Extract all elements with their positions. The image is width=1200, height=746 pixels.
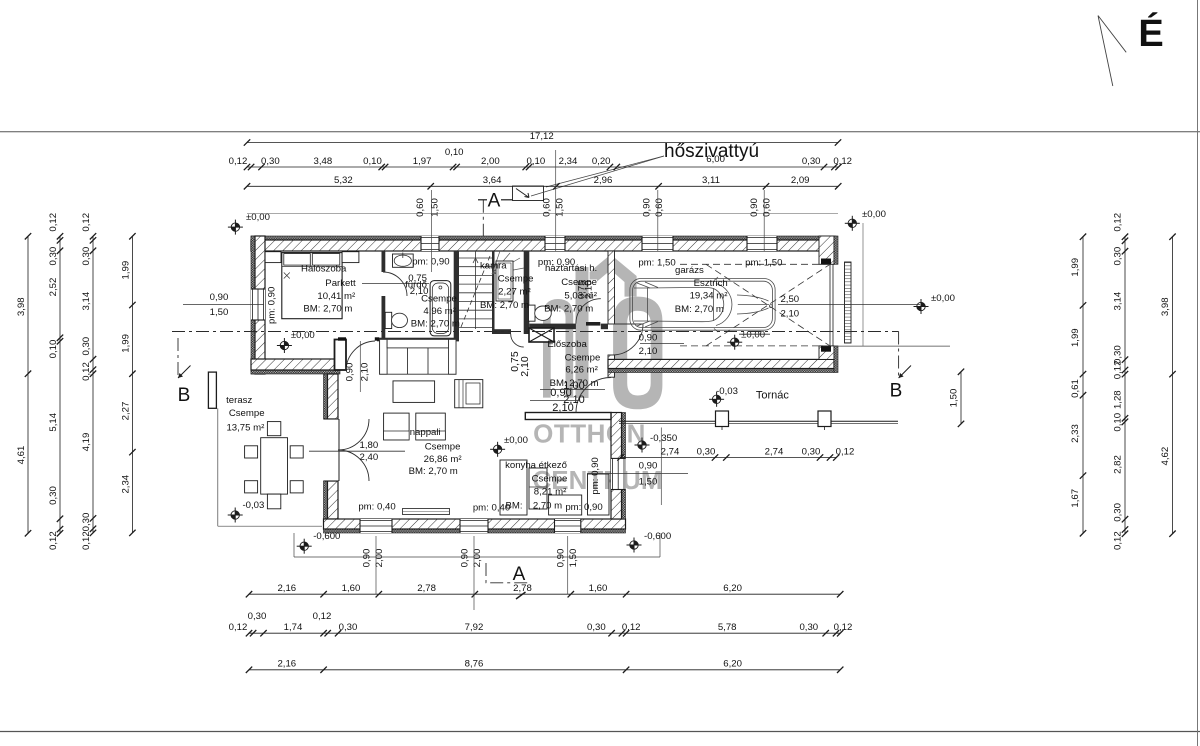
svg-text:1,60: 1,60: [342, 583, 361, 594]
svg-text:0,30: 0,30: [81, 247, 92, 266]
svg-text:2,10: 2,10: [552, 402, 573, 414]
svg-text:BM: 2,70 m: BM: 2,70 m: [544, 303, 593, 314]
garage south wall: [608, 369, 834, 373]
svg-text:4,62: 4,62: [1160, 447, 1171, 466]
svg-text:BM: 2,70 m: BM: 2,70 m: [675, 304, 724, 315]
bathtub: [430, 281, 451, 336]
svg-text:0,12: 0,12: [622, 622, 641, 633]
svg-text:1,99: 1,99: [120, 334, 131, 353]
svg-text:2,74: 2,74: [765, 446, 784, 457]
garage right wall bottom stub: [819, 346, 834, 360]
svg-text:2,16: 2,16: [277, 659, 296, 670]
section B line left: [177, 338, 179, 378]
svg-text:pm: 0,90: pm: 0,90: [590, 457, 601, 494]
svg-text:0,10: 0,10: [527, 156, 546, 167]
level mark +-0.00 garage right: [914, 299, 929, 314]
level mark -0.350 porch: [635, 438, 650, 453]
svg-text:0,12: 0,12: [81, 362, 92, 381]
garage door swing dashed: [706, 264, 830, 346]
level mark +-0.00 bedroom: [277, 338, 292, 353]
svg-text:8,76: 8,76: [465, 659, 484, 670]
svg-text:2,09: 2,09: [791, 175, 810, 186]
svg-text:4,61: 4,61: [16, 446, 27, 465]
svg-text:3,48: 3,48: [314, 156, 333, 167]
svg-text:3,11: 3,11: [702, 175, 720, 186]
svg-text:4,19: 4,19: [81, 433, 92, 452]
utility door threshold: [586, 322, 600, 326]
porch dimension row: [621, 457, 837, 459]
svg-text:É: É: [1138, 11, 1163, 55]
svg-text:2,33: 2,33: [1070, 424, 1081, 443]
hall door stub wall: [335, 340, 347, 371]
garage west wall upper: [608, 251, 615, 324]
svg-text:6,00: 6,00: [706, 154, 725, 165]
kamra east partition: [524, 251, 530, 334]
svg-text:19,34 m²: 19,34 m²: [690, 291, 729, 302]
bathroom south partition: [377, 338, 459, 342]
svg-text:1,99: 1,99: [120, 261, 131, 280]
svg-text:-0,600: -0,600: [313, 531, 340, 542]
svg-text:0,30: 0,30: [48, 486, 59, 505]
left dimension chain 3: [92, 236, 94, 533]
level mark +-0.00 top left: [228, 220, 243, 235]
terrace outline: [217, 408, 219, 526]
section A line top: [482, 200, 484, 237]
svg-text:0,12: 0,12: [836, 446, 855, 457]
utility south wall east: [601, 324, 608, 330]
svg-text:1,60: 1,60: [589, 583, 608, 594]
svg-text:0,30: 0,30: [81, 513, 92, 532]
svg-text:26,86 m²: 26,86 m²: [424, 454, 463, 465]
svg-text:BM: 2,70 m: BM: 2,70 m: [409, 466, 458, 477]
svg-text:0,90: 0,90: [460, 549, 471, 568]
utility toilet: [529, 305, 536, 321]
svg-text:0,12: 0,12: [834, 622, 853, 633]
svg-text:0,30: 0,30: [248, 611, 267, 622]
right dimension chain 1: [1082, 237, 1084, 534]
svg-text:0,10: 0,10: [363, 156, 382, 167]
svg-text:±0,00: ±0,00: [862, 209, 886, 220]
level mark -0.600 right: [627, 538, 642, 553]
svg-text:0,12: 0,12: [229, 156, 248, 167]
svg-text:0,30: 0,30: [81, 337, 92, 356]
page frame bottom line: [0, 731, 1200, 733]
svg-text:0,60: 0,60: [654, 198, 665, 217]
svg-text:2,50: 2,50: [780, 294, 799, 305]
svg-text:0,90: 0,90: [749, 198, 760, 217]
svg-text:0,30: 0,30: [339, 622, 358, 633]
svg-text:1,50: 1,50: [429, 198, 440, 217]
svg-text:2,10: 2,10: [583, 280, 594, 299]
kamra shelf: [496, 261, 513, 301]
svg-text:0,12: 0,12: [1113, 531, 1124, 550]
svg-text:B: B: [890, 381, 903, 402]
svg-text:2,10: 2,10: [780, 309, 799, 320]
svg-text:6,20: 6,20: [723, 583, 742, 594]
kamra south wall: [495, 329, 512, 334]
svg-text:1,74: 1,74: [284, 622, 303, 633]
svg-text:1,99: 1,99: [1070, 328, 1081, 347]
svg-text:0,30: 0,30: [697, 446, 716, 457]
window garage 1 pm 1.50: [642, 236, 673, 251]
svg-text:2,78: 2,78: [513, 583, 532, 594]
stair-kamra partition: [492, 251, 495, 334]
utility south wall west: [529, 324, 576, 330]
garage west wall lower / entry wall: [608, 355, 615, 377]
bathroom toilet: [385, 312, 392, 328]
kamra door arc: [511, 334, 524, 347]
bottom dimension row C: [249, 669, 840, 671]
bathroom sink: [393, 254, 414, 267]
svg-text:A: A: [488, 190, 501, 211]
svg-text:2,34: 2,34: [559, 156, 578, 167]
svg-text:3,64: 3,64: [483, 175, 502, 186]
bed: [282, 253, 342, 319]
svg-text:2,10: 2,10: [360, 363, 371, 382]
level mark -0.03 porch: [709, 392, 724, 407]
kitchen window axis: [587, 473, 688, 475]
porch post 2: [818, 411, 831, 427]
svg-text:0,90: 0,90: [641, 198, 652, 217]
svg-text:3,98: 3,98: [16, 297, 27, 316]
porch post 1: [716, 411, 729, 427]
hall door arc: [346, 341, 375, 371]
svg-text:0,60: 0,60: [542, 198, 553, 217]
bottom dimension row B: [249, 632, 840, 634]
svg-text:2,10: 2,10: [639, 346, 658, 357]
driveway edge line right: [834, 345, 950, 347]
svg-text:Csempe: Csempe: [565, 353, 601, 364]
svg-text:2,70 m: 2,70 m: [533, 500, 562, 511]
svg-text:-0,03: -0,03: [242, 500, 264, 511]
svg-text:BM: 2,70 m: BM: 2,70 m: [411, 319, 460, 330]
svg-text:0,12: 0,12: [313, 611, 332, 622]
car in garage: [630, 277, 775, 332]
svg-text:pm: 1,50: pm: 1,50: [638, 258, 675, 269]
svg-text:0,75: 0,75: [408, 273, 427, 284]
svg-text:Csempe: Csempe: [421, 293, 457, 304]
svg-text:0,90: 0,90: [639, 460, 658, 471]
svg-text:konyha étkező: konyha étkező: [505, 460, 567, 471]
svg-text:10,41 m²: 10,41 m²: [317, 291, 356, 302]
left dimension chain 1: [27, 236, 29, 533]
southwest step wall: [251, 370, 340, 374]
svg-text:-0,600: -0,600: [644, 531, 671, 542]
svg-text:3,14: 3,14: [81, 291, 92, 310]
section B line right: [898, 332, 900, 379]
svg-text:0,30: 0,30: [261, 156, 280, 167]
svg-text:terasz: terasz: [226, 395, 252, 406]
window extension lines bottom: [375, 536, 377, 594]
svg-text:0,20: 0,20: [592, 156, 611, 167]
svg-text:5,78: 5,78: [718, 622, 737, 633]
svg-text:0,90: 0,90: [210, 292, 229, 303]
svg-text:Tornác: Tornác: [756, 390, 790, 402]
top dimension row 1: [247, 142, 838, 144]
svg-text:5,32: 5,32: [334, 175, 353, 186]
svg-text:0,60: 0,60: [415, 198, 426, 217]
garage sectional door leaf: [845, 262, 852, 343]
svg-text:±0,00: ±0,00: [931, 293, 955, 304]
svg-text:0,12: 0,12: [833, 156, 852, 167]
svg-text:0,90: 0,90: [345, 363, 356, 382]
garage person door arc: [612, 324, 643, 355]
svg-text:pm: 0,90: pm: 0,90: [266, 287, 277, 324]
page frame top line: [0, 131, 1200, 133]
svg-text:0,12: 0,12: [81, 531, 92, 550]
svg-text:OTTHON: OTTHON: [533, 418, 646, 448]
svg-text:1,67: 1,67: [1070, 489, 1081, 508]
svg-text:13,75 m²: 13,75 m²: [226, 422, 265, 433]
svg-text:0,30: 0,30: [48, 247, 59, 266]
terrace side wall: [208, 372, 216, 408]
bathroom door arc: [383, 272, 407, 296]
svg-text:4,96 m²: 4,96 m²: [423, 306, 456, 317]
svg-text:0,10: 0,10: [1113, 413, 1124, 432]
watermark monogram c ring: [613, 297, 662, 410]
window bathroom top: [421, 236, 439, 251]
level mark +-0.00 garage: [727, 335, 742, 350]
winder stair fan lines: [492, 251, 524, 274]
nightstand right: [342, 252, 359, 263]
kitchen north wall: [525, 413, 611, 420]
svg-text:0,10: 0,10: [445, 147, 464, 158]
svg-text:2,16: 2,16: [277, 583, 296, 594]
staircase: [459, 251, 492, 329]
svg-text:1,50: 1,50: [210, 307, 229, 318]
svg-text:1,99: 1,99: [1070, 258, 1081, 277]
svg-text:0,12: 0,12: [1113, 361, 1124, 380]
garage right wall top stub: [819, 236, 834, 264]
left exterior wall: [251, 236, 255, 374]
svg-text:2,78: 2,78: [417, 583, 436, 594]
svg-text:2,40: 2,40: [360, 452, 379, 463]
top dimension row 3: [247, 185, 838, 187]
window kitchen east pm 0.90: [611, 458, 626, 489]
svg-text:BM: 2,70 m: BM: 2,70 m: [303, 304, 352, 315]
south exterior wall living kitchen: [324, 529, 626, 533]
top exterior wall: [251, 236, 836, 240]
left dimension chain 2: [59, 236, 61, 533]
svg-text:3,98: 3,98: [1160, 297, 1171, 316]
entry door arc: [576, 378, 611, 413]
svg-text:2,52: 2,52: [48, 278, 59, 297]
svg-text:0,90: 0,90: [556, 549, 567, 568]
svg-text:6,20: 6,20: [723, 659, 742, 670]
window garage 2 pm 1.50: [747, 236, 777, 251]
level mark +-0.00 kitchen: [490, 442, 505, 457]
svg-text:Csempe: Csempe: [498, 274, 534, 285]
window stair top pm 0.90: [545, 236, 565, 251]
svg-text:2,27 m²: 2,27 m²: [498, 287, 531, 298]
axis line horizontal: [172, 331, 899, 333]
svg-text:1,50: 1,50: [949, 389, 960, 408]
level mark -0.600 left: [297, 539, 312, 554]
svg-text:0,60: 0,60: [762, 198, 773, 217]
armchair 1: [384, 413, 410, 440]
right dimension chain 3: [1172, 237, 1174, 534]
right window axis: [778, 304, 920, 306]
right dimension chain 2: [1124, 237, 1126, 534]
heat pump leader lines: [546, 156, 664, 187]
kitchen counter south: [549, 495, 582, 515]
garage door opening lines: [829, 264, 831, 346]
top reference line: [247, 213, 838, 215]
right plot line: [862, 223, 864, 346]
nightstand left: [265, 252, 281, 263]
utility room door arc: [576, 299, 601, 324]
svg-text:5,14: 5,14: [48, 412, 59, 431]
tv bench: [455, 380, 483, 408]
svg-text:pm: 0,40: pm: 0,40: [473, 502, 510, 513]
svg-text:0,90: 0,90: [362, 549, 373, 568]
kitchen east wall: [622, 413, 626, 520]
svg-text:2,34: 2,34: [120, 474, 131, 493]
svg-text:0,12: 0,12: [81, 213, 92, 232]
svg-text:0,12: 0,12: [48, 531, 59, 550]
svg-text:2,96: 2,96: [594, 175, 613, 186]
window kitchen south pm 0.90: [555, 519, 581, 533]
electrical meter box: [529, 328, 554, 342]
svg-text:2,00: 2,00: [481, 156, 500, 167]
svg-text:0,30: 0,30: [802, 446, 821, 457]
french door arcs: [338, 419, 369, 450]
window bedroom left pm 0.90: [251, 289, 265, 320]
svg-text:pm: 0,90: pm: 0,90: [412, 257, 449, 268]
svg-text:BM: 2,70 m: BM: 2,70 m: [480, 300, 529, 311]
armchair 2: [416, 413, 446, 440]
svg-text:0,30: 0,30: [1113, 247, 1124, 266]
svg-text:1,28: 1,28: [1113, 390, 1124, 409]
right porch depth dimension: [960, 372, 962, 424]
page frame right border: [1197, 0, 1199, 746]
svg-text:1,50: 1,50: [639, 477, 658, 488]
svg-text:0,30: 0,30: [799, 622, 818, 633]
svg-text:nappali: nappali: [410, 427, 441, 438]
svg-text:1,80: 1,80: [360, 440, 379, 451]
porch level extension line: [660, 428, 662, 506]
svg-text:Előszoba: Előszoba: [547, 339, 587, 350]
svg-text:B: B: [178, 385, 191, 406]
svg-text:3,14: 3,14: [1113, 291, 1124, 310]
section A line bottom: [486, 563, 528, 583]
bedroom east partition upper: [382, 251, 386, 272]
svg-text:-0,350: -0,350: [650, 433, 677, 444]
svg-text:pm: 0,90: pm: 0,90: [565, 502, 602, 513]
svg-text:Csempe: Csempe: [229, 408, 265, 419]
kitchen counter west: [500, 460, 527, 515]
svg-text:6,26 m²: 6,26 m²: [565, 365, 598, 376]
bedroom east partition lower: [382, 296, 386, 341]
svg-text:Esztrich: Esztrich: [694, 278, 728, 289]
living room west wall: [324, 374, 328, 419]
svg-text:Csempe: Csempe: [425, 442, 461, 453]
svg-text:2,10: 2,10: [519, 356, 531, 377]
north arrow: [1098, 16, 1126, 87]
window extension lines top: [431, 190, 433, 272]
stair west wall: [454, 251, 459, 341]
window living 2 pm 0.40: [460, 519, 488, 533]
svg-text:pm: 1,50: pm: 1,50: [745, 258, 782, 269]
terrace chairs: [245, 446, 258, 458]
svg-text:0,10: 0,10: [48, 340, 59, 359]
svg-text:0,12: 0,12: [229, 622, 248, 633]
svg-text:17,12: 17,12: [530, 131, 554, 142]
svg-text:0,12: 0,12: [48, 213, 59, 232]
svg-text:0,90: 0,90: [639, 333, 658, 344]
svg-text:garázs: garázs: [675, 265, 704, 276]
coffee table: [393, 381, 435, 403]
plinth outline -0.600: [293, 533, 295, 557]
svg-text:1,50: 1,50: [568, 549, 579, 568]
svg-text:háztartási h.: háztartási h.: [545, 263, 597, 274]
kitchen table: [529, 468, 547, 509]
svg-text:±0,00: ±0,00: [504, 435, 528, 446]
kitchen counter east: [588, 474, 610, 515]
svg-text:0,30: 0,30: [802, 156, 821, 167]
svg-text:Hálószoba: Hálószoba: [301, 264, 347, 275]
svg-text:2,27: 2,27: [120, 402, 131, 421]
svg-text:A: A: [513, 564, 526, 585]
svg-text:7,92: 7,92: [465, 622, 484, 633]
level mark +-0.00 top right: [845, 216, 860, 231]
svg-text:8,21 m²: 8,21 m²: [534, 486, 567, 497]
terrace table: [261, 438, 288, 494]
svg-text:Csempe: Csempe: [532, 473, 568, 484]
french door opening terrace: [324, 419, 339, 481]
watermark monogram n hump: [543, 299, 573, 398]
svg-text:2,82: 2,82: [1113, 455, 1124, 474]
svg-text:2,74: 2,74: [661, 446, 680, 457]
svg-text:0,30: 0,30: [1113, 503, 1124, 522]
window sill detail living south: [403, 509, 450, 515]
watermark monogram roof: [590, 255, 637, 297]
sofa: [380, 339, 456, 374]
porch edge line: [619, 420, 898, 422]
level mark -0.03 terrace: [228, 508, 243, 523]
left dimension chain 4: [131, 236, 133, 533]
svg-text:1,50: 1,50: [554, 198, 565, 217]
svg-text:0,61: 0,61: [1070, 379, 1081, 398]
bottom dimension row A: [249, 593, 840, 595]
top dimension row 2: [247, 166, 839, 168]
svg-text:pm: 0,40: pm: 0,40: [358, 502, 395, 513]
window living 1 pm 0.40: [360, 519, 392, 533]
svg-text:0,12: 0,12: [1113, 213, 1124, 232]
left window axis: [183, 304, 264, 306]
svg-text:kamra: kamra: [480, 261, 507, 272]
svg-text:Parkett: Parkett: [325, 278, 356, 289]
watermark monogram stem: [576, 267, 589, 398]
svg-text:0,30: 0,30: [587, 622, 606, 633]
svg-text:1,97: 1,97: [413, 156, 432, 167]
heat pump unit box: [513, 186, 544, 201]
svg-text:-0,03: -0,03: [716, 386, 738, 397]
